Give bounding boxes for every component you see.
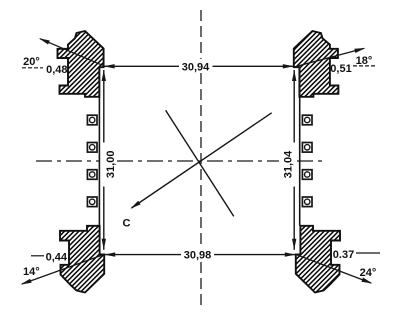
svg-text:30,94: 30,94 [182,61,210,73]
svg-text:31,00: 31,00 [105,151,117,179]
svg-text:24°: 24° [360,267,377,279]
svg-text:18°: 18° [356,55,373,67]
svg-text:0.37: 0.37 [333,249,354,261]
svg-text:0,51: 0,51 [330,63,351,75]
svg-text:C: C [123,218,131,230]
svg-text:20°: 20° [23,56,40,68]
svg-text:0,44: 0,44 [46,252,68,264]
svg-text:0,48: 0,48 [46,64,67,76]
svg-text:14°: 14° [23,266,40,278]
svg-text:31,04: 31,04 [283,150,295,178]
svg-text:30,98: 30,98 [184,250,212,262]
